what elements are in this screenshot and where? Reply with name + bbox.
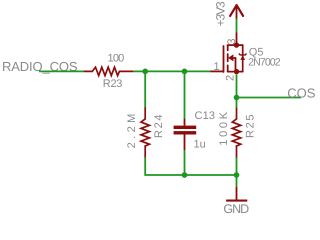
svg-text:R25: R25	[245, 115, 257, 139]
transistor Q5 gate lead (pin 1)	[211, 70, 224, 72]
source pin dot	[234, 69, 239, 74]
drain horizontal	[228, 44, 243, 46]
bulk arrow head	[228, 54, 233, 61]
wire bottom rail to GND	[236, 175, 238, 187]
source horizontal	[228, 71, 243, 73]
wire junction down to C13	[184, 71, 186, 118]
body diode line	[242, 45, 244, 72]
bulk arrow tail	[233, 57, 236, 59]
node junction at C13 tap	[182, 69, 188, 75]
resistor R24	[141, 108, 149, 158]
gate bar	[223, 46, 225, 72]
svg-text:1: 1	[213, 61, 219, 73]
svg-text:GND: GND	[223, 202, 249, 216]
capacitor C13	[174, 118, 197, 150]
svg-text:R24: R24	[153, 115, 165, 139]
wire junction down to R24	[144, 71, 146, 108]
svg-text:2N7002: 2N7002	[248, 57, 281, 69]
svg-text:2: 2	[225, 75, 237, 81]
body diode cathode bar	[239, 53, 247, 55]
svg-text:100: 100	[108, 53, 125, 65]
node junction at R24 tap	[142, 69, 148, 75]
channel bottom dash	[227, 65, 229, 71]
node junction bottom rail at C13	[182, 172, 188, 178]
resistor R23	[85, 67, 134, 75]
svg-text:1u: 1u	[194, 139, 206, 151]
transistor Q5 2N7002	[224, 33, 243, 73]
wire net RADIO_COS to R23	[39, 70, 85, 72]
svg-text:C13: C13	[195, 110, 216, 122]
supply +3V3 symbol	[230, 5, 243, 19]
resistor R25	[232, 109, 240, 158]
svg-text:3: 3	[226, 38, 238, 44]
body diode triangle	[240, 55, 245, 60]
wire +3V3 to drain	[236, 19, 238, 33]
wire COS stub	[237, 97, 302, 99]
ground	[226, 187, 247, 201]
wire R25 to bottom rail	[236, 158, 238, 176]
wire source down to COS node	[236, 74, 238, 97]
drain pin dot	[234, 42, 239, 47]
drain pin lead	[236, 33, 238, 46]
svg-text:100K: 100K	[218, 111, 230, 145]
svg-text:COS: COS	[287, 85, 316, 100]
channel middle dash	[227, 54, 229, 61]
wire COS node to R25	[236, 98, 238, 109]
channel top dash	[227, 45, 229, 50]
wire R23 to gate of Q5	[133, 70, 211, 72]
svg-text:2.2M: 2.2M	[126, 114, 138, 149]
wire C13 to bottom rail	[184, 150, 186, 175]
node junction bottom rail at R25/GND	[234, 172, 240, 178]
svg-text:+3V3: +3V3	[214, 1, 228, 27]
wire R24 to bottom rail	[145, 158, 236, 176]
node junction COS	[234, 95, 240, 101]
svg-text:R23: R23	[103, 78, 123, 90]
